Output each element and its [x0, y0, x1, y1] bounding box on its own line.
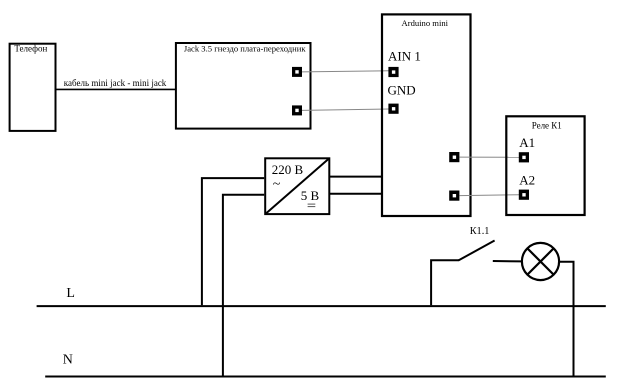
- pad Arduino GND: [388, 104, 398, 114]
- wire lamp to N bus: [559, 262, 573, 377]
- wire switch fixed contact to lamp: [493, 260, 521, 262]
- svg-text:N: N: [63, 352, 73, 367]
- pad Arduino AIN1: [388, 67, 398, 77]
- wire PSU 5V output plus to Arduino: [329, 176, 382, 178]
- label DC symbol =: [308, 203, 316, 205]
- svg-text:Телефон: Телефон: [14, 44, 47, 54]
- N bus line: [45, 376, 606, 378]
- block Arduino mini: [382, 14, 471, 216]
- svg-text:AIN 1: AIN 1: [388, 48, 421, 63]
- block Jack 3.5 гнездо плата-переходник: [176, 43, 311, 129]
- pad Jack output 2: [292, 105, 302, 115]
- svg-text:Jack 3.5 гнездо плата-переходн: Jack 3.5 гнездо плата-переходник: [184, 44, 306, 54]
- pad Arduino relay drive 2: [449, 191, 459, 201]
- svg-text:Реле К1: Реле К1: [532, 121, 562, 131]
- wire PSU AC input from N bus: [223, 195, 264, 376]
- pad Arduino relay drive 1: [449, 152, 459, 162]
- wire cable Телефон to Jack box: [57, 88, 176, 90]
- pad relay A1: [519, 152, 529, 162]
- pad relay A2: [519, 190, 529, 200]
- wire Jack pad1 to Arduino AIN1 pad: [302, 71, 389, 72]
- svg-text:кабель mini jack - mini jack: кабель mini jack - mini jack: [64, 78, 167, 88]
- lamp HL1: [522, 243, 559, 280]
- wire Arduino pad to relay A1 pad: [459, 156, 519, 158]
- block Телефон: [10, 44, 56, 131]
- svg-text:A2: A2: [519, 173, 535, 188]
- svg-text:GND: GND: [388, 83, 416, 98]
- svg-text:A1: A1: [519, 135, 535, 150]
- wire Arduino pad to relay A2 pad: [459, 194, 519, 197]
- wire PSU AC input from L bus: [202, 178, 264, 305]
- power supply 220V to 5V block: [265, 158, 329, 214]
- block Реле К1: [506, 116, 584, 215]
- svg-text:~: ~: [273, 177, 281, 192]
- pad Jack output 1: [292, 67, 302, 77]
- switch К1.1: [431, 241, 495, 306]
- svg-text:К1.1: К1.1: [470, 226, 490, 237]
- svg-text:5 В: 5 В: [301, 188, 320, 203]
- svg-text:L: L: [66, 286, 75, 301]
- wire Jack pad2 to Arduino GND pad: [302, 109, 389, 110]
- svg-text:Arduino mini: Arduino mini: [402, 18, 449, 28]
- wire PSU 5V output minus to Arduino: [329, 193, 382, 195]
- L bus line: [37, 305, 606, 307]
- svg-text:220 В: 220 В: [272, 162, 304, 177]
